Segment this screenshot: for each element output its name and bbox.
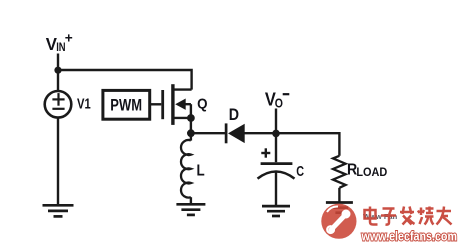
svg-text:C: C <box>296 164 304 180</box>
svg-text:D: D <box>229 105 239 124</box>
svg-text:Q: Q <box>197 96 208 113</box>
svg-text:V1: V1 <box>77 96 91 113</box>
svg-text:L: L <box>197 163 205 180</box>
svg-text:LOAD: LOAD <box>356 165 387 179</box>
svg-text:+: + <box>65 31 73 46</box>
svg-text:PWM: PWM <box>110 95 142 114</box>
svg-text:www.elecfans.com: www.elecfans.com <box>361 229 457 244</box>
svg-text:O: O <box>275 96 283 111</box>
